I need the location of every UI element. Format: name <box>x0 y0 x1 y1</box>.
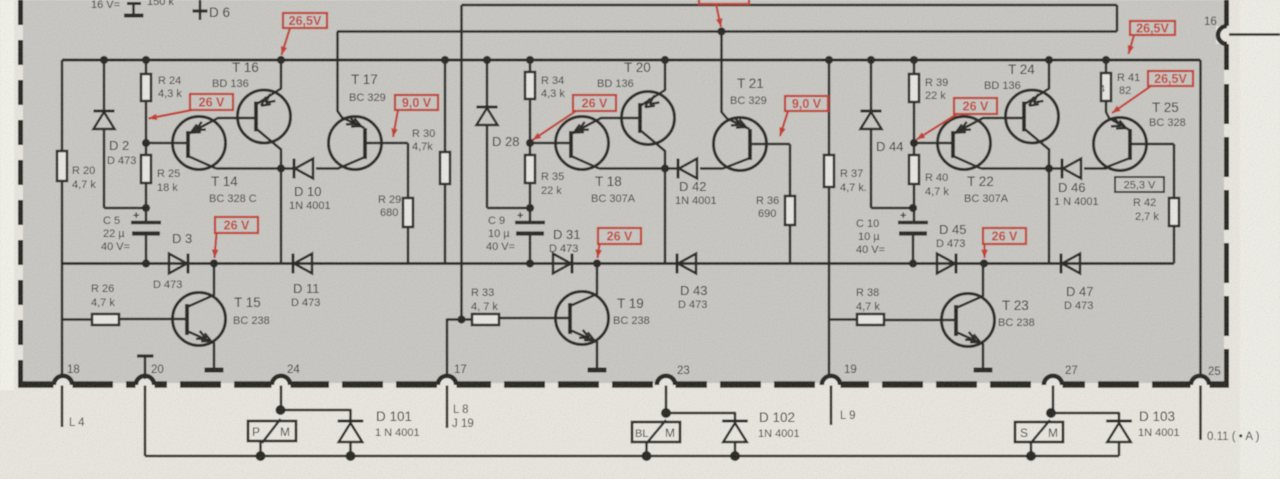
transistor T25 base lead <box>1130 143 1174 146</box>
node relay P junction <box>276 405 286 415</box>
resistor R39 <box>913 60 916 74</box>
transistor T22 collector <box>953 156 981 169</box>
diode D45 <box>937 254 955 274</box>
transistor T15 circle <box>173 293 226 346</box>
wire output node 3 down to mid bus <box>1048 169 1051 264</box>
dashed border right side <box>1224 84 1229 384</box>
node R40-C10 junction <box>909 204 917 212</box>
terminal 16 bump on right border <box>1216 26 1230 44</box>
wire left rail section 1 <box>61 60 64 378</box>
voltage callout 9.0V section 1 <box>395 95 438 110</box>
voltage callout 26V section 3 mid bus <box>983 228 1026 244</box>
ground T19 emitter <box>588 368 607 373</box>
node R33 feed junction <box>457 315 465 323</box>
node T16 collector junction <box>277 164 285 172</box>
transistor T17 base bar <box>363 128 367 159</box>
wire terminal 25 stub <box>1199 386 1202 441</box>
transistor T22 base lead <box>914 142 953 145</box>
voltage callout 26.5V right on bus <box>1130 21 1175 35</box>
transistor T18 circle <box>556 117 609 170</box>
node R39 bus junction <box>910 56 918 64</box>
resistor R36 <box>789 144 792 196</box>
wire bottom relay bus <box>145 455 1119 458</box>
resistor R29 <box>407 143 410 198</box>
node T24 collector junction <box>1045 164 1053 172</box>
wire rail section 2 (R30 column) <box>444 60 447 264</box>
transistor T16 collector <box>256 129 281 169</box>
voltage label 25.3V black box <box>1115 177 1164 192</box>
voltage callout 9.0V section 2 <box>785 96 828 111</box>
resistor R38 <box>829 318 857 321</box>
terminal 17 bump <box>438 379 457 392</box>
transistor T17 collector <box>338 157 365 169</box>
transistor T15 emitter <box>187 331 214 369</box>
transistor T24 collector <box>1024 129 1049 169</box>
transistor T16 base bar <box>254 102 258 132</box>
terminal 27 bump <box>1044 379 1063 392</box>
node relay BL junction <box>661 408 671 418</box>
diode D6 (cut off at top) <box>199 0 202 20</box>
node R25-C5 junction <box>142 204 150 212</box>
wire rail corner at x1117 <box>1116 5 1119 32</box>
resistor R25 <box>141 155 151 183</box>
node T24 emitter bus junction <box>1045 56 1053 64</box>
wire right rail to terminal 25 <box>1199 60 1202 377</box>
diode D28 <box>486 60 489 107</box>
node R34 bus junction <box>526 56 534 64</box>
wire terminal 16 to edge <box>1229 33 1280 36</box>
wire output node 2 down to mid bus <box>664 169 667 264</box>
node D28 bus junction <box>483 56 491 64</box>
node base junction T14 <box>142 139 150 147</box>
diode D44 <box>870 60 873 111</box>
terminal 23 bump <box>657 379 676 392</box>
voltage callout 26V section 1 top <box>190 94 233 110</box>
node D101 bottom <box>346 451 356 461</box>
transistor T20 collector <box>640 130 665 169</box>
wire mid bus 26V <box>62 262 1174 265</box>
transistor T14 base lead <box>146 142 188 145</box>
node T16 emitter bus junction <box>277 56 285 64</box>
relay S/M coil <box>1015 422 1063 442</box>
transistor T20 circle <box>622 92 675 145</box>
wire terminal 27 down <box>1052 386 1055 414</box>
transistor T23 base bar <box>954 305 958 336</box>
wire terminal 18 stub <box>61 386 64 428</box>
wire output node down to mid bus <box>280 169 283 264</box>
resistor R37 <box>824 155 834 187</box>
transistor T19 base bar <box>568 303 572 334</box>
wire terminal 20 down <box>144 386 147 457</box>
paper background inside dashed border <box>23 0 1224 383</box>
transistor T25 collector <box>1103 158 1130 169</box>
diode D2 <box>103 60 106 111</box>
node relay P coil bottom <box>256 451 266 461</box>
transistor T23 circle <box>942 294 995 347</box>
node T23 collector mid bus junction <box>980 259 988 267</box>
diode D43 <box>676 254 679 274</box>
wire top rail from pin 12 area <box>462 4 1118 7</box>
node rail R30 bus junction <box>441 56 449 64</box>
transistor T22 emitter <box>953 118 1024 134</box>
capacitor to ground (cut off at top) <box>127 2 141 5</box>
wire T18 collector to node <box>599 167 665 170</box>
transistor T14 collector <box>188 156 216 169</box>
resistor R20 <box>57 151 67 181</box>
voltage callout 26V section 1 mid bus <box>215 217 258 233</box>
node T21 emitter rail junction <box>717 27 725 35</box>
transistor T25 base bar <box>1128 129 1132 160</box>
transistor T15 collector <box>187 264 214 308</box>
transistor T18 collector <box>571 156 599 169</box>
transistor T14 emitter <box>188 118 256 134</box>
transistor T14 base bar <box>186 131 190 158</box>
resistor R40 <box>909 155 919 184</box>
transistor T21 collector <box>723 158 750 169</box>
transistor T24 base bar <box>1022 102 1026 132</box>
transistor T18 emitter <box>571 118 640 134</box>
transistor T19 emitter <box>570 330 597 369</box>
diode D11 <box>292 254 295 274</box>
resistor R35 <box>525 155 535 183</box>
wire relay P to D101 <box>281 410 351 421</box>
transistor T25 circle <box>1094 118 1147 171</box>
relay P/M coil <box>248 421 296 441</box>
transistor T18 base lead <box>530 142 571 145</box>
dashed border bottom side <box>18 381 1229 388</box>
transistor T16 emitter to bus <box>256 60 281 105</box>
transistor T19 collector <box>570 264 597 307</box>
wire terminal 24 down <box>280 386 283 411</box>
node D44 bus junction <box>867 56 875 64</box>
transistor T24 emitter to bus <box>1024 60 1049 105</box>
wire left rail section 3 <box>828 60 831 378</box>
wire relay BL to D102 <box>666 413 735 421</box>
resistor R26 <box>62 318 92 321</box>
node R41 bus junction <box>1102 56 1110 64</box>
diode D3 <box>169 254 187 274</box>
voltage callout 26.5V top middle (cut) <box>699 0 749 4</box>
node relay S junction <box>1046 408 1056 418</box>
transistor T24 circle <box>1006 90 1059 143</box>
wire T14 collector to node <box>216 167 281 170</box>
transistor T22 circle <box>938 117 991 170</box>
transistor T17 circle <box>329 117 382 170</box>
transistor T21 base lead <box>750 143 790 146</box>
transistor T25 emitter via R41 <box>1106 101 1130 130</box>
voltage callout 26V section 3 top <box>954 98 997 114</box>
transistor T21 base bar <box>748 129 752 160</box>
diode D10 <box>281 167 294 170</box>
diode D47 <box>1060 254 1063 274</box>
diode D102 <box>722 420 748 423</box>
resistor R30 <box>440 152 450 184</box>
transistor T19 circle <box>556 292 609 345</box>
transistor T20 emitter to bus <box>640 60 665 106</box>
node relay BL coil bottom <box>642 451 652 461</box>
voltage callout 26.5V at T25 <box>1148 71 1193 86</box>
connector stub above terminal 20 <box>137 354 154 357</box>
terminal 19 bump <box>822 379 841 392</box>
transistor T17 base lead <box>365 142 408 145</box>
voltage callout 26V section 2 top <box>573 95 616 111</box>
node T20 collector junction <box>661 164 669 172</box>
dashed border left side <box>18 0 23 383</box>
wire terminal 23 down <box>665 386 668 414</box>
wire T22 collector to node <box>981 167 1049 170</box>
diode D103 <box>1106 420 1132 423</box>
node T20 emitter bus junction <box>661 56 669 64</box>
transistor T21 emitter to rail <box>722 32 750 130</box>
transistor T16 circle <box>238 90 291 143</box>
node base junction T22 <box>910 139 918 147</box>
terminal 18 bump <box>54 379 73 392</box>
transistor T15 base bar <box>185 304 189 335</box>
node C10 mid bus junction <box>909 259 917 267</box>
transistor T22 base bar <box>951 131 955 158</box>
ground T15 emitter <box>205 368 224 373</box>
resistor R41 <box>1101 73 1111 101</box>
transistor T23 collector <box>956 264 983 309</box>
resistor R34 <box>529 60 532 72</box>
resistor R24 <box>145 60 148 74</box>
wire terminal 19 stub <box>830 386 833 426</box>
terminal 25 bump <box>1191 379 1210 392</box>
wire main 26.5V bus <box>62 59 1201 62</box>
transistor T15 base lead <box>119 318 187 321</box>
transistor T23 emitter <box>956 332 983 369</box>
wire vertical feed at x461 <box>460 5 463 320</box>
node R24 bus junction <box>142 56 150 64</box>
terminal 20 bump <box>136 379 155 392</box>
node T19 collector mid bus junction <box>593 259 601 267</box>
transistor T20 base bar <box>638 103 642 133</box>
node D2 bus junction <box>100 56 108 64</box>
node base junction T18 <box>526 139 534 147</box>
resistor R33 <box>462 318 473 321</box>
node C9 mid bus junction <box>526 259 534 267</box>
node relay S coil bottom <box>1026 451 1036 461</box>
diode D101 <box>338 420 364 423</box>
resistor R42 <box>1173 144 1176 198</box>
transistor T19 base lead <box>499 317 570 320</box>
transistor T14 circle <box>173 117 226 170</box>
node C5 mid bus junction <box>142 259 150 267</box>
diode D42 <box>665 167 678 170</box>
wire terminal 17 stub <box>446 386 449 429</box>
transistor T23 base lead <box>884 319 956 322</box>
node R35-C9 junction <box>526 204 534 212</box>
ground T23 emitter <box>974 368 993 373</box>
wire terminal 17 feed jog <box>447 320 462 378</box>
wire emitter rail y31 <box>337 30 1117 33</box>
node D102 bottom <box>730 451 740 461</box>
transistor T18 base bar <box>569 131 573 158</box>
node T15 collector mid bus junction <box>210 259 218 267</box>
voltage callout 26.5V top left <box>283 13 327 28</box>
relay BL/M coil <box>632 422 680 442</box>
diode D46 <box>1049 167 1062 170</box>
terminal 24 bump <box>272 379 291 392</box>
transistor T21 circle <box>714 118 767 171</box>
transistor T17 emitter to rail <box>338 32 365 129</box>
node rail section3 bus junction <box>825 56 833 64</box>
wire relay S to D103 <box>1051 413 1119 421</box>
diode D31 <box>553 254 571 274</box>
voltage callout 26V section 2 mid bus <box>598 228 641 244</box>
